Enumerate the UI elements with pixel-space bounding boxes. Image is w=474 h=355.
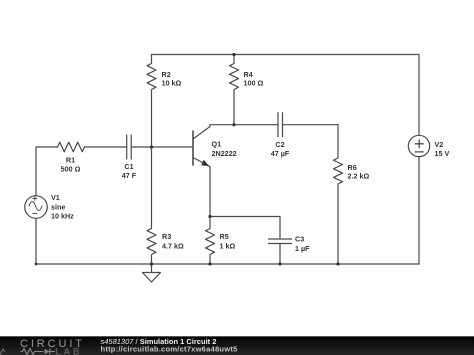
svg-text:C3: C3	[295, 235, 304, 244]
resistor R4	[230, 55, 264, 125]
svg-text:10 kHz: 10 kHz	[51, 211, 74, 220]
CircuitLab logo	[0, 338, 85, 355]
wire left rail (V1 top lead)	[35, 147, 37, 196]
wire V1 bottom lead	[35, 218, 37, 264]
node R3 ground junction	[150, 262, 153, 265]
svg-text:V2: V2	[435, 140, 444, 149]
svg-text:sine: sine	[51, 202, 65, 211]
resistor R6	[334, 125, 370, 264]
wire C1 to Q1 base	[131, 146, 193, 148]
node top rail / R4 junction	[232, 53, 235, 56]
node collector / R4 junction	[232, 123, 235, 126]
svg-text:15 V: 15 V	[435, 149, 450, 158]
resistor R2	[147, 55, 181, 148]
svg-text:C1: C1	[124, 162, 133, 171]
capacitor C2	[271, 113, 290, 158]
wire emitter node (R5 to C3)	[210, 216, 280, 218]
svg-text:100 Ω: 100 Ω	[244, 79, 264, 88]
node V1 ground corner	[35, 263, 38, 266]
node R6 ground junction	[336, 262, 339, 265]
node base junction	[150, 145, 153, 148]
svg-text:Q1: Q1	[212, 140, 222, 149]
capacitor C3	[269, 217, 311, 265]
svg-text:2N2222: 2N2222	[212, 149, 237, 158]
svg-text:V1: V1	[51, 193, 60, 202]
svg-text:1 µF: 1 µF	[295, 244, 310, 253]
svg-text:R5: R5	[220, 232, 229, 241]
resistor R5	[206, 217, 236, 265]
svg-text:1 kΩ: 1 kΩ	[220, 241, 236, 250]
wire R1 to C1	[85, 146, 127, 148]
voltage source V1	[25, 193, 74, 220]
resistor R1	[58, 142, 85, 173]
wire right rail (V2 top lead)	[418, 55, 420, 136]
wire top rail	[152, 54, 420, 56]
svg-text:500 Ω: 500 Ω	[61, 165, 81, 174]
svg-text:2.2 kΩ: 2.2 kΩ	[348, 172, 370, 181]
svg-text:47 µF: 47 µF	[271, 149, 290, 158]
ground	[143, 264, 161, 282]
svg-text:4.7 kΩ: 4.7 kΩ	[162, 241, 184, 250]
resistor R3	[147, 147, 184, 264]
svg-text:47 F: 47 F	[122, 171, 137, 180]
svg-text:LAB: LAB	[55, 346, 82, 355]
svg-text:C2: C2	[275, 140, 284, 149]
transistor Q1	[193, 125, 237, 167]
svg-text:R3: R3	[162, 232, 171, 241]
wire bottom ground rail	[36, 263, 419, 265]
wire emitter lead	[209, 167, 211, 217]
node R5 ground junction	[208, 262, 211, 265]
wire C2 to R6	[283, 124, 339, 126]
wire input node (V1 to R1)	[36, 146, 58, 148]
svg-text:http://circuitlab.com/ct7xw6a4: http://circuitlab.com/ct7xw6a48uwt5	[101, 344, 239, 353]
node C3 ground junction	[278, 262, 281, 265]
svg-text:10 kΩ: 10 kΩ	[162, 79, 182, 88]
svg-text:R1: R1	[66, 156, 75, 165]
node emitter junction	[208, 215, 211, 218]
wire V2 bottom lead	[418, 157, 420, 264]
voltage source V2	[408, 135, 449, 158]
footer bar	[0, 336, 474, 355]
capacitor C1	[122, 135, 137, 180]
wire collector rail (Q1 to C2)	[210, 124, 278, 126]
